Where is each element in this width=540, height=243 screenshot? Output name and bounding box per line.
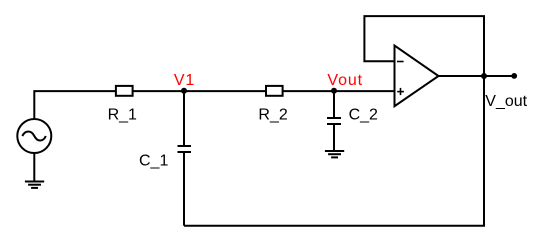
AC source VS1 circle	[17, 119, 51, 153]
wire op-amp output	[439, 75, 515, 77]
wire source to ground	[33, 154, 35, 182]
AC source sine wave	[22, 132, 46, 141]
wire bottom feedback return	[184, 76, 484, 226]
svg-text:R_2: R_2	[258, 107, 287, 124]
wire main horizontal from source to op-amp + input	[34, 91, 394, 118]
node Vout	[331, 88, 337, 94]
ground (C_2)	[325, 151, 344, 157]
ground (source)	[25, 182, 44, 188]
resistor R_1	[116, 86, 133, 96]
op-amp U1 triangle	[395, 46, 439, 107]
node output terminal dot	[511, 73, 517, 79]
wire Vout node down to C_2	[333, 91, 335, 117]
op-amp minus sign (inverting input)	[397, 61, 404, 63]
capacitor C_2 plates	[327, 118, 341, 124]
node output junction	[481, 73, 487, 79]
wire feedback loop output to inverting input	[364, 16, 484, 76]
wire V1 node down to C_1	[183, 91, 185, 145]
op-amp plus sign (non-inverting input)	[397, 88, 404, 95]
svg-text:R_1: R_1	[108, 107, 137, 124]
svg-text:Vout: Vout	[327, 72, 363, 89]
wire C_2 to ground	[333, 125, 335, 151]
wire C_1 bottom lead	[183, 153, 185, 226]
svg-text:V1: V1	[174, 72, 195, 89]
svg-text:C_1: C_1	[139, 152, 168, 169]
node V1	[181, 88, 187, 94]
svg-text:C_2: C_2	[349, 107, 378, 124]
svg-text:V_out: V_out	[485, 93, 527, 110]
capacitor C_1 plates	[178, 146, 192, 152]
resistor R_2	[266, 86, 283, 96]
